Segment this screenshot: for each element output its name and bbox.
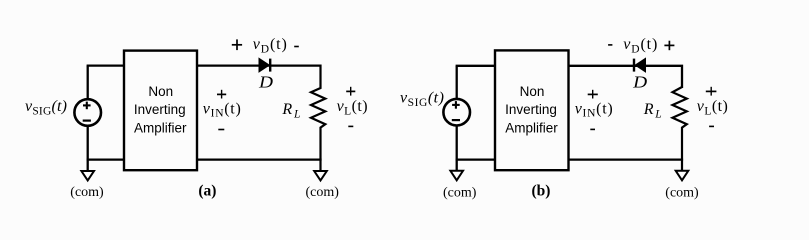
svg-text:(com): (com) <box>305 185 339 200</box>
svg-text:D: D <box>258 72 274 91</box>
svg-text:Amplifier: Amplifier <box>505 120 558 135</box>
svg-text:Non: Non <box>148 84 173 99</box>
svg-text:Non: Non <box>520 84 545 99</box>
svg-text:vD(t): vD(t) <box>253 36 287 55</box>
svg-text:Inverting: Inverting <box>505 102 557 117</box>
svg-text:(com): (com) <box>443 186 477 201</box>
svg-text:vL(t): vL(t) <box>337 98 368 117</box>
svg-text:(b): (b) <box>532 182 551 199</box>
svg-text:(a): (a) <box>198 182 216 199</box>
svg-text:vD(t): vD(t) <box>623 36 657 55</box>
svg-text:(com): (com) <box>70 185 104 200</box>
svg-text:D: D <box>632 73 648 92</box>
svg-text:(com): (com) <box>665 185 699 200</box>
svg-text:vL(t): vL(t) <box>697 98 728 117</box>
svg-text:Amplifier: Amplifier <box>134 120 187 135</box>
svg-text:Inverting: Inverting <box>134 102 186 117</box>
